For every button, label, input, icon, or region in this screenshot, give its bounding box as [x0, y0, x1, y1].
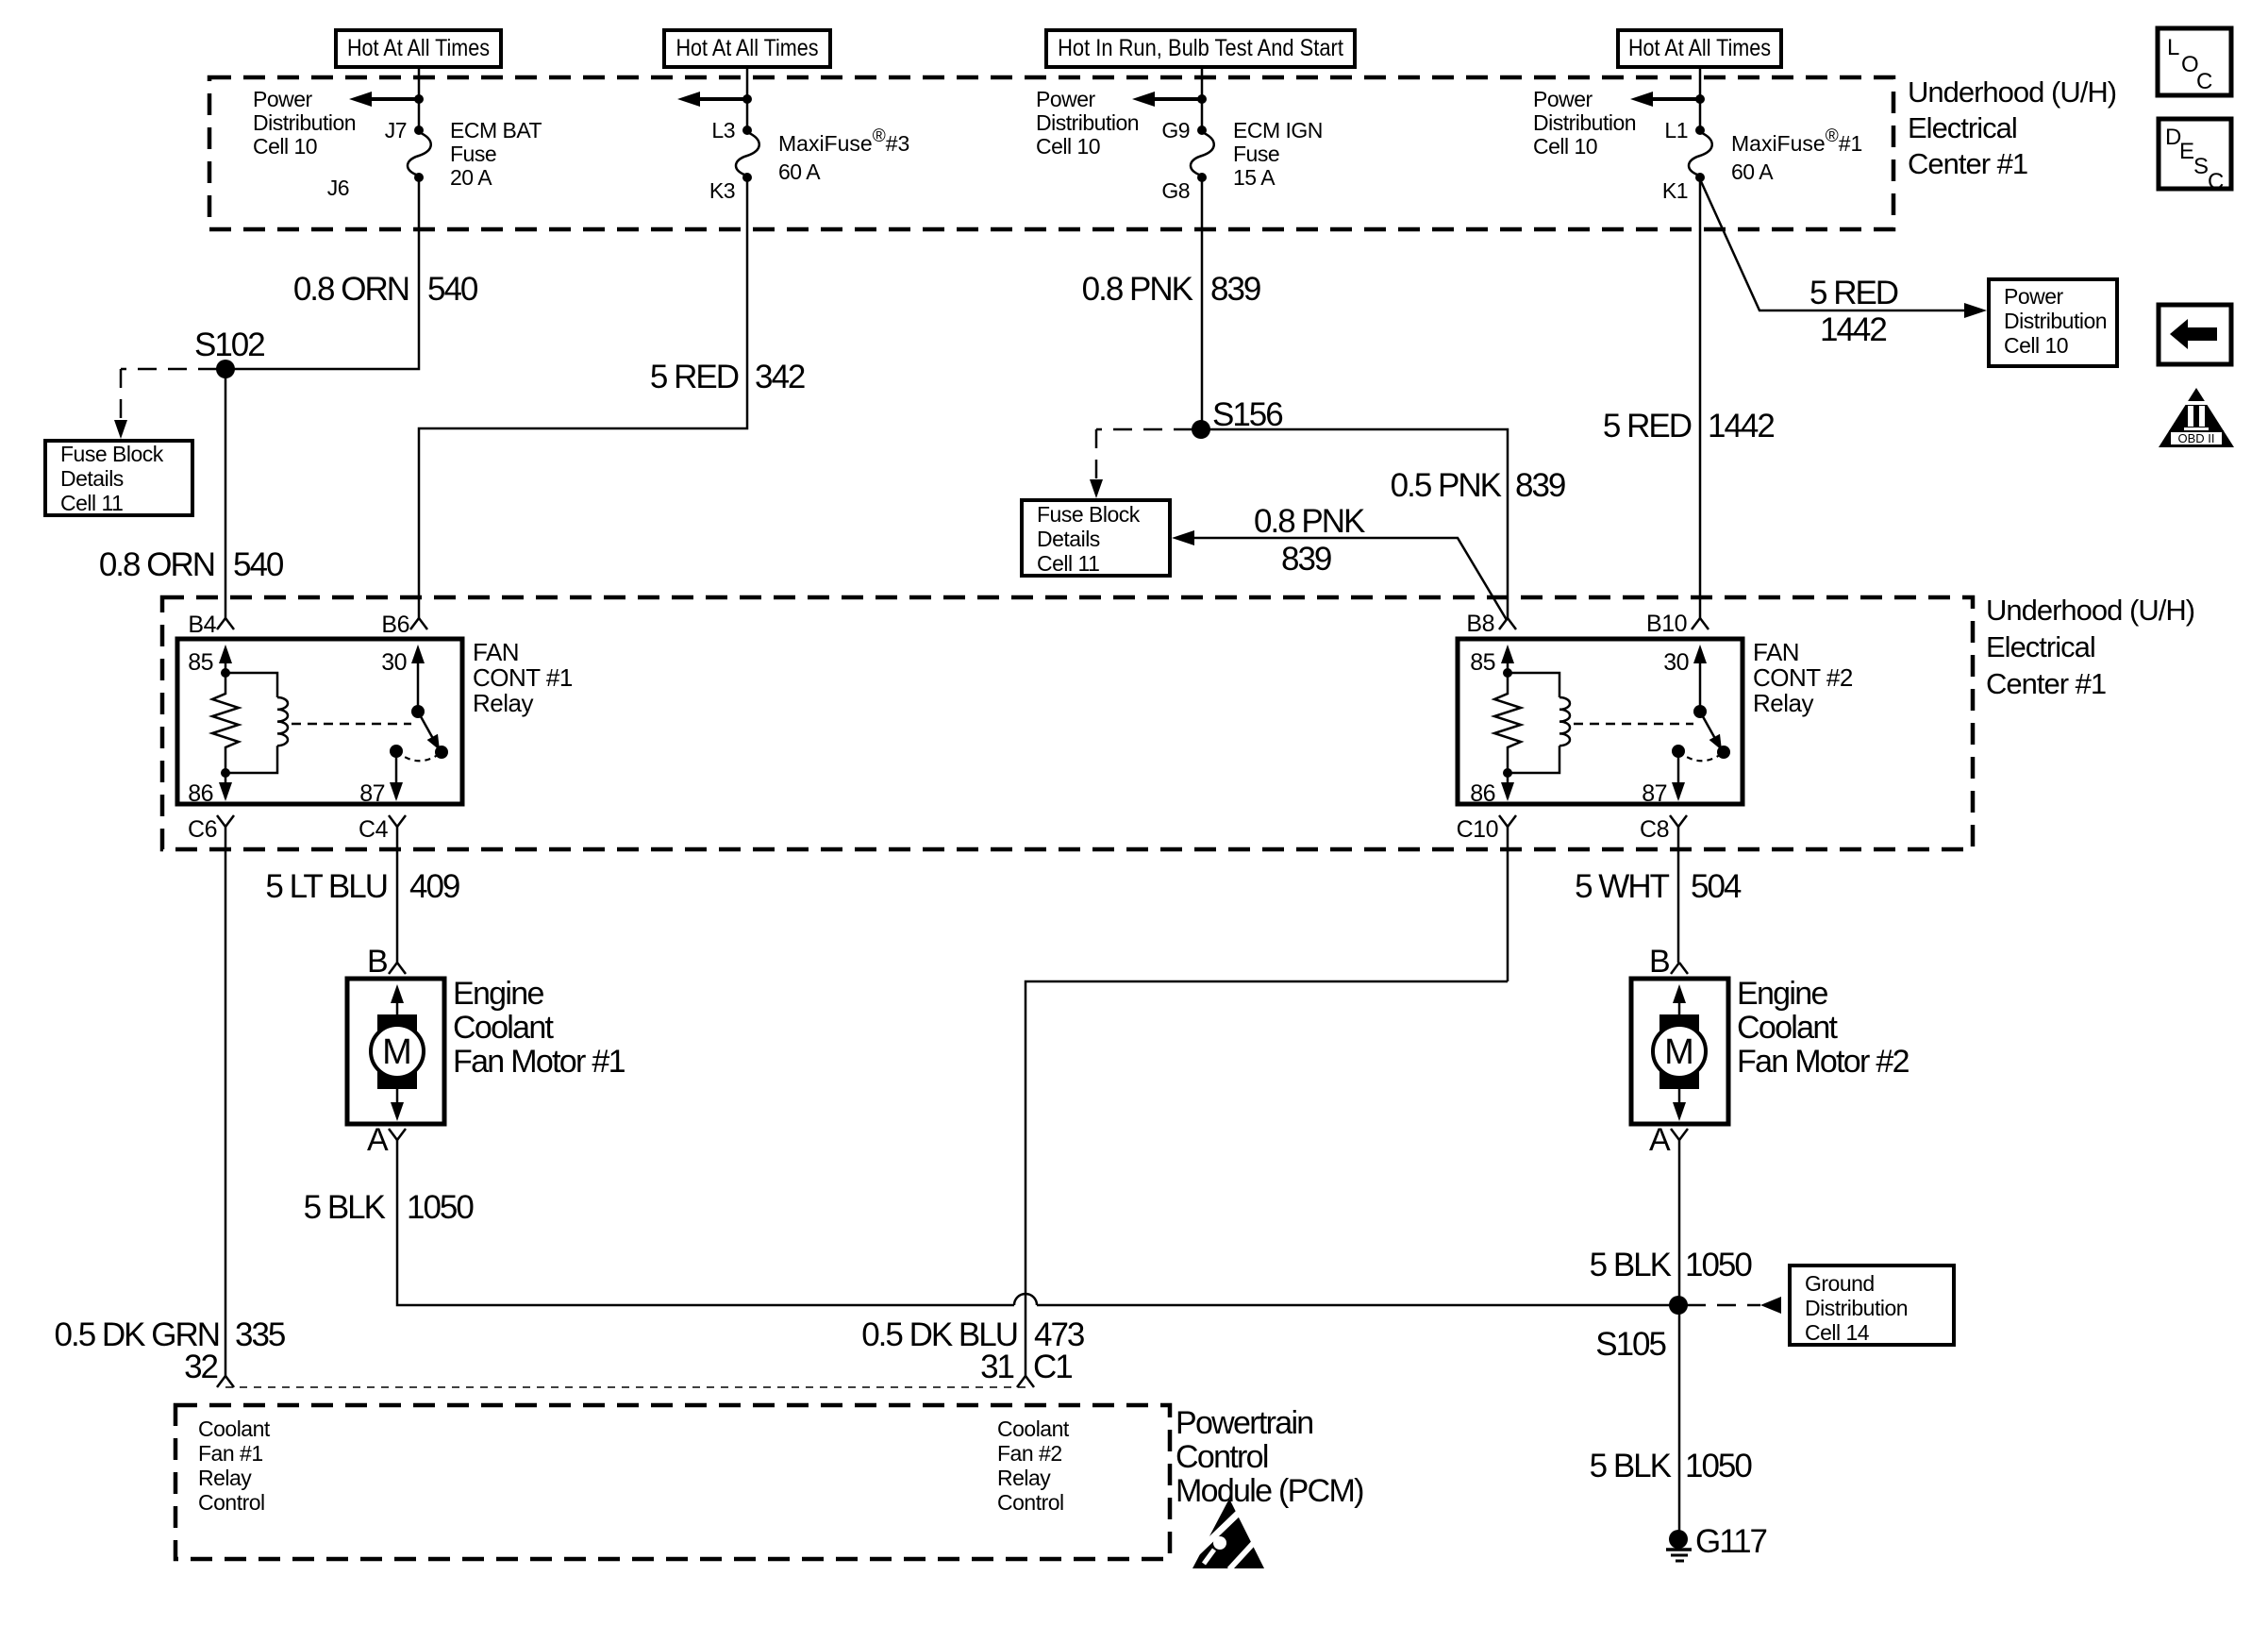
- svg-text:839: 839: [1515, 467, 1565, 504]
- svg-text:Powertrain: Powertrain: [1176, 1405, 1313, 1441]
- svg-text:839: 839: [1281, 541, 1331, 578]
- svg-text:Cell 11: Cell 11: [1037, 551, 1099, 576]
- svg-text:Relay: Relay: [1753, 689, 1813, 717]
- svg-text:Coolant: Coolant: [198, 1416, 271, 1441]
- svg-text:335: 335: [235, 1316, 285, 1353]
- svg-text:30: 30: [1663, 649, 1689, 676]
- svg-text:Fan Motor #2: Fan Motor #2: [1737, 1044, 1909, 1080]
- svg-text:B: B: [367, 944, 387, 980]
- svg-text:G9: G9: [1161, 118, 1190, 142]
- svg-text:Underhood (U/H): Underhood (U/H): [1986, 594, 2194, 627]
- svg-text:Module (PCM): Module (PCM): [1176, 1473, 1363, 1509]
- svg-text:B8: B8: [1466, 611, 1494, 637]
- svg-text:Distribution: Distribution: [2004, 309, 2107, 333]
- svg-text:ECM BAT: ECM BAT: [450, 118, 542, 142]
- svg-text:5 WHT: 5 WHT: [1575, 868, 1670, 905]
- svg-text:C4: C4: [359, 816, 389, 843]
- svg-text:Hot At All Times: Hot At All Times: [675, 35, 818, 61]
- svg-text:Hot At All Times: Hot At All Times: [347, 35, 490, 61]
- svg-text:87: 87: [1642, 780, 1667, 807]
- svg-text:S: S: [2193, 154, 2209, 179]
- svg-text:Power: Power: [1036, 87, 1096, 111]
- svg-text:20 A: 20 A: [450, 165, 492, 190]
- svg-text:E: E: [2179, 139, 2194, 164]
- svg-text:Cell 14: Cell 14: [1805, 1320, 1870, 1345]
- svg-text:Relay: Relay: [198, 1466, 252, 1490]
- svg-text:J7: J7: [385, 118, 407, 142]
- svg-text:Hot At All Times: Hot At All Times: [1628, 35, 1771, 61]
- svg-text:Distribution: Distribution: [1036, 110, 1139, 135]
- svg-text:5 BLK: 5 BLK: [1590, 1247, 1672, 1283]
- svg-text:60 A: 60 A: [1731, 159, 1774, 184]
- svg-text:0.8 PNK: 0.8 PNK: [1082, 271, 1193, 308]
- svg-text:Coolant: Coolant: [997, 1416, 1070, 1441]
- svg-text:C8: C8: [1640, 816, 1669, 843]
- svg-text:Fan #1: Fan #1: [198, 1441, 263, 1466]
- svg-text:C6: C6: [188, 816, 217, 843]
- svg-text:B4: B4: [188, 612, 216, 638]
- svg-text:G8: G8: [1161, 178, 1190, 203]
- svg-text:839: 839: [1210, 271, 1260, 308]
- svg-text:Underhood (U/H): Underhood (U/H): [1908, 75, 2116, 109]
- svg-text:5 LT BLU: 5 LT BLU: [265, 868, 387, 905]
- svg-text:5 RED: 5 RED: [1809, 275, 1898, 311]
- svg-text:S102: S102: [194, 327, 264, 363]
- svg-text:60 A: 60 A: [778, 159, 821, 184]
- svg-text:C: C: [2208, 169, 2224, 194]
- svg-text:B10: B10: [1646, 611, 1687, 637]
- svg-text:Fan Motor #1: Fan Motor #1: [453, 1044, 625, 1080]
- svg-text:B6: B6: [381, 612, 409, 638]
- svg-text:1050: 1050: [1685, 1448, 1752, 1484]
- svg-text:Control: Control: [1176, 1439, 1268, 1475]
- svg-text:540: 540: [427, 271, 478, 308]
- svg-text:Distribution: Distribution: [253, 110, 356, 135]
- svg-text:MaxiFuse®#3: MaxiFuse®#3: [778, 126, 909, 156]
- svg-text:31: 31: [980, 1349, 1013, 1385]
- svg-text:Engine: Engine: [453, 976, 543, 1012]
- svg-text:32: 32: [184, 1349, 217, 1385]
- svg-text:Ground: Ground: [1805, 1271, 1875, 1296]
- svg-text:Power: Power: [2004, 284, 2064, 309]
- svg-text:C1: C1: [1033, 1349, 1072, 1385]
- svg-text:OBD II: OBD II: [2177, 431, 2214, 445]
- svg-text:Fuse: Fuse: [1233, 142, 1279, 166]
- svg-text:85: 85: [188, 649, 213, 676]
- svg-text:0.5 PNK: 0.5 PNK: [1391, 467, 1502, 504]
- svg-text:Fuse Block: Fuse Block: [60, 442, 164, 466]
- svg-text:Power: Power: [1533, 87, 1593, 111]
- svg-text:A: A: [367, 1122, 389, 1158]
- svg-text:Fuse: Fuse: [450, 142, 496, 166]
- svg-text:FAN: FAN: [1753, 638, 1799, 666]
- svg-text:0.8 ORN: 0.8 ORN: [99, 546, 214, 583]
- svg-text:Center #1: Center #1: [1908, 147, 2027, 180]
- svg-text:Relay: Relay: [473, 689, 533, 717]
- svg-text:Fan #2: Fan #2: [997, 1441, 1062, 1466]
- svg-text:K3: K3: [709, 178, 735, 203]
- svg-text:Cell 10: Cell 10: [253, 134, 317, 159]
- svg-text:M: M: [382, 1032, 412, 1072]
- svg-text:FAN: FAN: [473, 638, 519, 666]
- svg-text:K1: K1: [1662, 178, 1688, 203]
- svg-text:Coolant: Coolant: [1737, 1010, 1839, 1046]
- svg-text:Details: Details: [60, 466, 124, 491]
- svg-text:Cell 10: Cell 10: [1036, 134, 1100, 159]
- svg-text:L: L: [2167, 35, 2179, 60]
- svg-text:ECM IGN: ECM IGN: [1233, 118, 1323, 142]
- svg-text:L3: L3: [711, 118, 735, 142]
- svg-text:C10: C10: [1457, 816, 1498, 843]
- svg-text:Control: Control: [997, 1490, 1064, 1515]
- svg-text:86: 86: [188, 780, 213, 807]
- svg-text:86: 86: [1470, 780, 1495, 807]
- svg-text:S105: S105: [1595, 1326, 1665, 1363]
- svg-text:1050: 1050: [407, 1189, 474, 1226]
- svg-text:Hot In Run, Bulb Test And Star: Hot In Run, Bulb Test And Start: [1058, 35, 1343, 61]
- svg-text:Cell 10: Cell 10: [1533, 134, 1597, 159]
- svg-text:A: A: [1649, 1122, 1671, 1158]
- svg-text:0.8 PNK: 0.8 PNK: [1254, 503, 1365, 540]
- svg-text:MaxiFuse®#1: MaxiFuse®#1: [1731, 126, 1862, 156]
- svg-text:Distribution: Distribution: [1533, 110, 1636, 135]
- svg-text:G117: G117: [1695, 1523, 1767, 1560]
- svg-text:87: 87: [359, 780, 385, 807]
- svg-text:5 BLK: 5 BLK: [304, 1189, 386, 1226]
- svg-text:Distribution: Distribution: [1805, 1296, 1908, 1320]
- svg-text:30: 30: [381, 649, 407, 676]
- svg-text:5 RED: 5 RED: [1603, 408, 1692, 444]
- svg-text:Fuse Block: Fuse Block: [1037, 502, 1141, 527]
- svg-text:Relay: Relay: [997, 1466, 1051, 1490]
- svg-text:342: 342: [755, 359, 805, 395]
- svg-text:504: 504: [1691, 868, 1742, 905]
- svg-text:Cell 10: Cell 10: [2004, 333, 2068, 358]
- svg-text:CONT #2: CONT #2: [1753, 663, 1853, 692]
- svg-text:Control: Control: [198, 1490, 265, 1515]
- svg-text:Cell 11: Cell 11: [60, 491, 123, 515]
- svg-text:409: 409: [409, 868, 459, 905]
- svg-text:15 A: 15 A: [1233, 165, 1276, 190]
- svg-text:1442: 1442: [1708, 408, 1774, 444]
- svg-text:1442: 1442: [1820, 311, 1886, 348]
- svg-text:5 RED: 5 RED: [650, 359, 739, 395]
- svg-text:Engine: Engine: [1737, 976, 1827, 1012]
- svg-text:0.8 ORN: 0.8 ORN: [293, 271, 409, 308]
- svg-text:1050: 1050: [1685, 1247, 1752, 1283]
- svg-text:Electrical: Electrical: [1986, 630, 2095, 663]
- svg-text:L1: L1: [1664, 118, 1688, 142]
- svg-text:Center #1: Center #1: [1986, 667, 2106, 700]
- svg-text:540: 540: [233, 546, 284, 583]
- svg-text:B: B: [1649, 944, 1669, 980]
- svg-text:CONT #1: CONT #1: [473, 663, 573, 692]
- svg-text:S156: S156: [1212, 396, 1282, 433]
- svg-text:J6: J6: [327, 176, 349, 200]
- svg-text:85: 85: [1470, 649, 1495, 676]
- svg-text:5 BLK: 5 BLK: [1590, 1448, 1672, 1484]
- svg-text:Coolant: Coolant: [453, 1010, 555, 1046]
- svg-text:Electrical: Electrical: [1908, 111, 2017, 144]
- svg-text:M: M: [1664, 1032, 1694, 1072]
- svg-text:Details: Details: [1037, 527, 1100, 551]
- svg-text:Power: Power: [253, 87, 313, 111]
- svg-text:C: C: [2196, 69, 2212, 94]
